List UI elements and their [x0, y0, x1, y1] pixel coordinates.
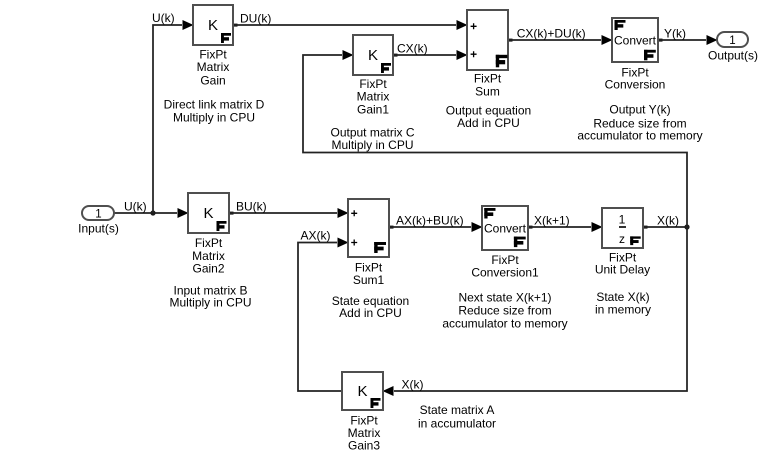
wire DU(k) Gain to Sum input 1: [233, 20, 468, 30]
svg-text:X(k+1): X(k+1): [534, 213, 570, 227]
svg-text:Reduce size from: Reduce size from: [458, 304, 551, 318]
svg-text:Sum1: Sum1: [353, 273, 385, 287]
svg-text:1: 1: [619, 213, 626, 227]
gain FixPt Matrix Gain2: [188, 193, 229, 275]
svg-text:in accumulator: in accumulator: [418, 417, 496, 431]
svg-text:AX(k): AX(k): [301, 229, 331, 243]
svg-text:Convert: Convert: [484, 221, 527, 235]
svg-text:accumulator to memory: accumulator to memory: [577, 128, 702, 142]
wire X(k+1) Conversion1 to Unit Delay: [528, 222, 603, 232]
svg-text:K: K: [368, 47, 378, 64]
svg-text:Direct link matrix D: Direct link matrix D: [164, 98, 265, 112]
svg-text:Gain2: Gain2: [192, 261, 224, 275]
output port Output(s): [708, 32, 758, 63]
svg-text:Gain3: Gain3: [348, 438, 380, 452]
sum FixPt Sum1: [348, 199, 389, 287]
svg-text:CX(k)+DU(k): CX(k)+DU(k): [517, 26, 586, 40]
svg-text:Conversion1: Conversion1: [471, 265, 539, 279]
svg-text:Multiply in CPU: Multiply in CPU: [169, 296, 251, 310]
svg-text:State matrix A: State matrix A: [420, 403, 495, 417]
svg-text:K: K: [208, 17, 218, 34]
wire BU(k) Gain2 to Sum1 input 1: [229, 208, 349, 218]
annotation State equation: [332, 294, 409, 320]
svg-text:in memory: in memory: [595, 303, 651, 317]
annotation Input matrix B: [169, 284, 251, 310]
svg-text:K: K: [357, 383, 367, 400]
svg-text:Unit Delay: Unit Delay: [595, 262, 650, 276]
gain FixPt Matrix Gain: [193, 5, 233, 87]
wire AX(k)+BU(k) Sum1 to Conversion1: [389, 222, 483, 232]
svg-text:X(k): X(k): [657, 213, 679, 227]
svg-text:DU(k): DU(k): [240, 11, 271, 25]
svg-text:Output(s): Output(s): [708, 49, 758, 63]
svg-text:X(k): X(k): [402, 377, 424, 391]
svg-text:U(k): U(k): [152, 11, 175, 25]
annotation Output Y(k): [577, 103, 702, 143]
svg-text:Next state X(k+1): Next state X(k+1): [458, 291, 551, 305]
svg-text:Add in CPU: Add in CPU: [457, 116, 520, 130]
svg-text:1: 1: [729, 35, 735, 47]
gain FixPt Matrix Gain1: [353, 35, 393, 116]
junction U(k) node: [150, 210, 155, 215]
annotation Next state X(k+1): [442, 291, 567, 331]
svg-text:Multiply in CPU: Multiply in CPU: [331, 138, 413, 152]
svg-text:Output matrix C: Output matrix C: [330, 125, 414, 139]
svg-text:BU(k): BU(k): [236, 200, 267, 214]
wire CX(k)+DU(k) Sum to Conversion: [508, 35, 613, 45]
unit delay FixPt Unit Delay: [595, 208, 650, 276]
svg-text:Input(s): Input(s): [78, 222, 119, 236]
svg-text:Gain: Gain: [200, 73, 225, 87]
svg-text:Matrix: Matrix: [357, 89, 390, 103]
svg-text:U(k): U(k): [124, 200, 147, 214]
svg-text:CX(k): CX(k): [397, 41, 428, 55]
svg-text:z: z: [619, 232, 625, 246]
annotation Output matrix C: [330, 125, 414, 152]
svg-text:Multiply in CPU: Multiply in CPU: [173, 111, 255, 125]
svg-text:Add in CPU: Add in CPU: [339, 306, 402, 320]
svg-text:Gain1: Gain1: [357, 102, 389, 116]
annotation State matrix A: [418, 403, 496, 431]
conversion FixPt Conversion1: [471, 206, 539, 279]
wire X(k) feedback down to Gain3: [383, 227, 688, 396]
wire X(k) feedback up to Gain1: [303, 50, 687, 227]
svg-text:Convert: Convert: [614, 33, 657, 47]
gain FixPt Matrix Gain3: [342, 372, 383, 452]
annotation Direct link matrix D: [164, 98, 265, 125]
svg-text:Matrix: Matrix: [197, 60, 230, 74]
wire U(k) riser to Gain: [153, 20, 194, 213]
junction X(k) node: [684, 224, 689, 229]
input port Input(s): [78, 206, 119, 236]
wire Y(k) Conversion to Output(s): [658, 35, 718, 45]
svg-text:Sum: Sum: [475, 84, 500, 98]
svg-text:Y(k): Y(k): [664, 26, 686, 40]
svg-text:K: K: [203, 205, 213, 222]
wire AX(k) Gain3 to Sum1 input 2: [298, 238, 349, 392]
svg-text:1: 1: [95, 208, 101, 220]
svg-text:AX(k)+BU(k): AX(k)+BU(k): [396, 213, 464, 227]
annotation Output equation: [446, 103, 531, 130]
wire CX(k) Gain1 to Sum input 2: [393, 50, 468, 60]
conversion FixPt Conversion: [605, 18, 666, 92]
svg-text:Conversion: Conversion: [605, 78, 666, 92]
annotation State X(k): [595, 290, 651, 316]
wire U(k) from Input(s) to Gain2: [114, 208, 189, 218]
svg-text:accumulator to memory: accumulator to memory: [442, 316, 567, 330]
wire X(k) Unit Delay to node: [643, 226, 687, 229]
sum FixPt Sum: [467, 10, 508, 98]
svg-text:Output Y(k): Output Y(k): [609, 103, 670, 117]
